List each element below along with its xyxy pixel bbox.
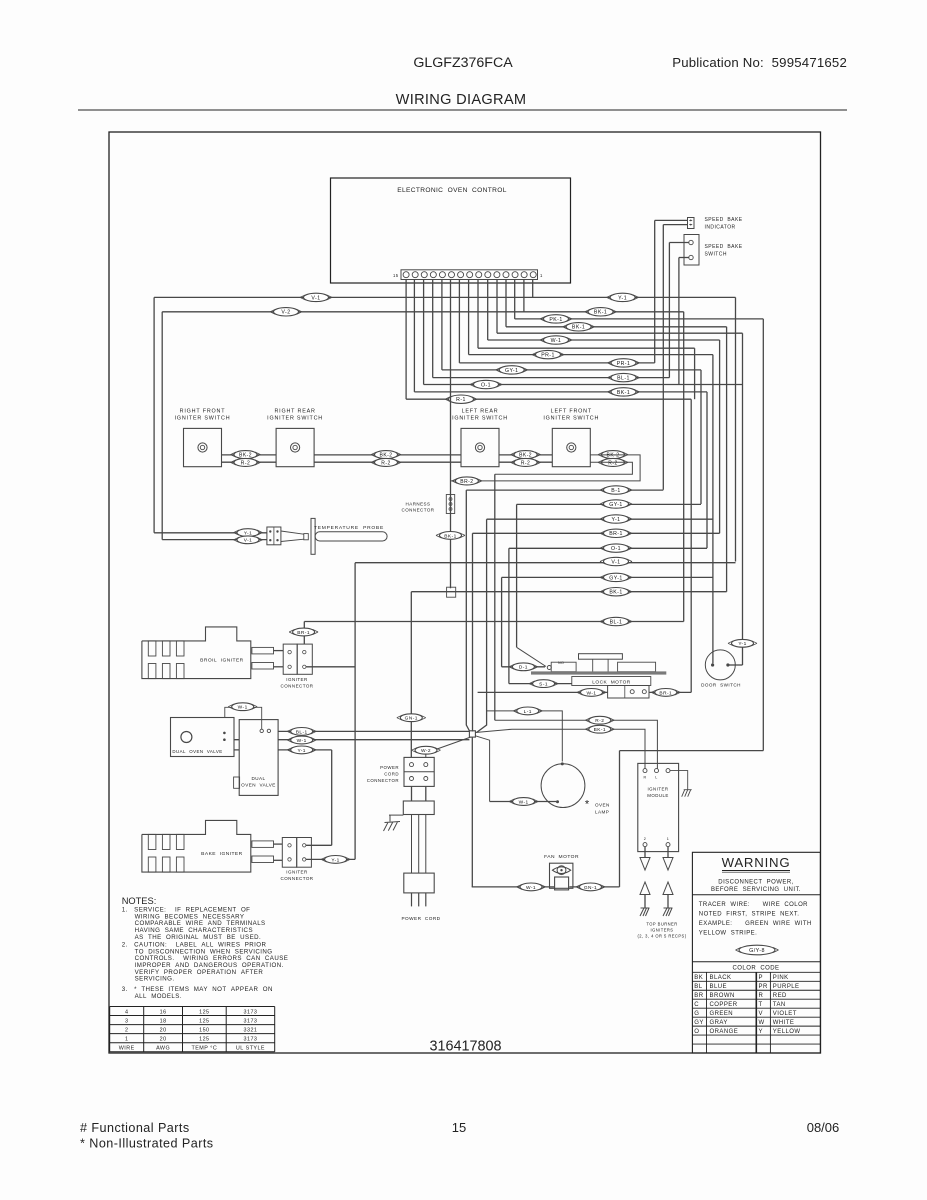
svg-text:3173: 3173	[244, 1036, 258, 1042]
svg-text:SPEED BAKE: SPEED BAKE	[705, 217, 743, 223]
svg-text:BK-2: BK-2	[380, 453, 393, 459]
svg-text:ELECTRONIC OVEN CONTROL: ELECTRONIC OVEN CONTROL	[397, 187, 507, 194]
svg-text:GY-1: GY-1	[609, 502, 622, 508]
svg-text:125: 125	[199, 1009, 209, 1015]
svg-text:BR-2: BR-2	[460, 479, 473, 485]
svg-text:IGNITERS: IGNITERS	[651, 928, 674, 933]
svg-text:* Non-Illustrated Parts: * Non-Illustrated Parts	[80, 1137, 214, 1151]
svg-text:R: R	[759, 993, 764, 999]
svg-text:PR-1: PR-1	[617, 361, 631, 367]
svg-text:15: 15	[452, 1120, 466, 1135]
svg-text:BK-1: BK-1	[594, 310, 607, 316]
svg-text:CORD: CORD	[384, 772, 399, 777]
svg-text:B-1: B-1	[611, 488, 620, 494]
svg-text:DOOR SWITCH: DOOR SWITCH	[701, 683, 741, 688]
svg-text:GN-1: GN-1	[405, 716, 418, 722]
svg-text:BK-2: BK-2	[239, 453, 252, 459]
svg-text:SWITCH: SWITCH	[705, 252, 727, 258]
svg-text:GREEN: GREEN	[710, 1011, 734, 1017]
svg-text:IGNITER SWITCH: IGNITER SWITCH	[543, 416, 599, 422]
svg-text:W: W	[759, 1020, 765, 1026]
svg-text:BR: BR	[694, 993, 703, 999]
svg-text:RED: RED	[773, 993, 787, 999]
svg-text:BR-1: BR-1	[609, 531, 623, 537]
svg-text:BK-1: BK-1	[594, 727, 606, 733]
svg-text:LAMP: LAMP	[595, 810, 609, 815]
svg-text:IGNITER SWITCH: IGNITER SWITCH	[267, 416, 323, 422]
svg-text:D-1: D-1	[519, 665, 528, 671]
svg-text:BROIL IGNITER: BROIL IGNITER	[200, 657, 244, 663]
svg-text:RIGHT REAR: RIGHT REAR	[274, 409, 315, 415]
svg-text:IGNITER: IGNITER	[286, 677, 308, 682]
svg-text:POWER CORD: POWER CORD	[401, 916, 440, 921]
svg-text:PR: PR	[759, 984, 768, 990]
svg-text:BL-1: BL-1	[296, 729, 308, 735]
svg-text:AS THE ORIGINAL MUST BE U: AS THE ORIGINAL MUST BE USED.	[122, 934, 261, 941]
svg-text:IGNITER SWITCH: IGNITER SWITCH	[175, 416, 231, 422]
svg-text:3: 3	[125, 1018, 128, 1024]
svg-text:SERVICING.: SERVICING.	[122, 976, 175, 983]
svg-text:BROWN: BROWN	[710, 993, 735, 999]
svg-text:T: T	[759, 1002, 763, 1008]
svg-text:UL STYLE: UL STYLE	[236, 1046, 265, 1052]
svg-text:316417808: 316417808	[429, 1038, 501, 1054]
svg-text:GRAY: GRAY	[710, 1020, 728, 1026]
svg-text:AWG: AWG	[156, 1046, 170, 1052]
svg-text:GN-1: GN-1	[584, 885, 597, 891]
svg-text:R-2: R-2	[521, 460, 530, 466]
svg-text:ALL MODELS.: ALL MODELS.	[122, 993, 182, 1000]
svg-text:Y-1: Y-1	[298, 748, 306, 754]
svg-text:BLUE: BLUE	[710, 984, 727, 990]
svg-text:BK-1: BK-1	[444, 533, 456, 539]
svg-text:15: 15	[393, 273, 399, 278]
svg-text:# Functional Parts: # Functional Parts	[80, 1121, 190, 1135]
svg-text:V-1: V-1	[244, 538, 253, 544]
svg-text:150: 150	[199, 1027, 209, 1033]
svg-text:18: 18	[160, 1018, 167, 1024]
svg-text:VIOLET: VIOLET	[773, 1011, 797, 1017]
svg-text:IGNITER SWITCH: IGNITER SWITCH	[452, 416, 508, 422]
svg-text:V-1: V-1	[611, 559, 620, 565]
svg-text:L: L	[655, 776, 657, 780]
svg-text:BK-2: BK-2	[607, 453, 620, 459]
svg-text:Y-1: Y-1	[738, 641, 746, 647]
svg-text:GLGFZ376FCA: GLGFZ376FCA	[413, 55, 513, 71]
svg-text:BL-1: BL-1	[617, 376, 630, 382]
svg-text:IGNITER: IGNITER	[648, 787, 669, 792]
svg-text:V-2: V-2	[281, 310, 290, 316]
svg-text:C: C	[694, 1002, 699, 1008]
svg-text:G: G	[694, 1011, 699, 1017]
svg-text:PK-1: PK-1	[549, 317, 562, 323]
svg-text:GY: GY	[694, 1020, 704, 1026]
svg-text:R-2: R-2	[241, 460, 250, 466]
svg-text:DUAL: DUAL	[251, 776, 265, 781]
svg-text:GY-1: GY-1	[505, 368, 518, 374]
svg-text:R-2: R-2	[595, 718, 604, 724]
svg-text:OVEN: OVEN	[595, 803, 610, 808]
svg-text:HARNESS: HARNESS	[406, 502, 431, 507]
svg-text:DUAL OVEN VALVE: DUAL OVEN VALVE	[172, 749, 222, 754]
svg-text:WIRING DIAGRAM: WIRING DIAGRAM	[396, 92, 527, 108]
svg-text:EXAMPLE: GREEN WIRE WIT: EXAMPLE: GREEN WIRE WITH	[699, 921, 812, 927]
svg-text:BK-1: BK-1	[572, 325, 585, 331]
svg-text:20: 20	[160, 1036, 167, 1042]
svg-text:POWER: POWER	[380, 765, 399, 770]
svg-text:CONNECTOR: CONNECTOR	[367, 778, 399, 783]
svg-text:ORANGE: ORANGE	[710, 1029, 739, 1035]
svg-text:W-1: W-1	[297, 738, 307, 744]
svg-text:08/06: 08/06	[807, 1120, 840, 1135]
svg-text:BK: BK	[694, 975, 703, 981]
svg-text:BR-1: BR-1	[659, 690, 672, 696]
svg-text:125: 125	[199, 1018, 209, 1024]
svg-text:P: P	[759, 975, 763, 981]
svg-text:NOTED FIRST, STRIPE NEXT.: NOTED FIRST, STRIPE NEXT.	[699, 912, 800, 918]
svg-text:TAN: TAN	[773, 1002, 786, 1008]
svg-text:CONNECTOR: CONNECTOR	[281, 684, 314, 689]
svg-text:TOP BURNER: TOP BURNER	[646, 922, 677, 927]
svg-text:BK-1: BK-1	[617, 390, 630, 396]
svg-text:W-1: W-1	[519, 799, 529, 805]
svg-text:Y: Y	[759, 1029, 763, 1035]
svg-text:PR-1: PR-1	[541, 353, 555, 359]
svg-text:GY-1: GY-1	[609, 575, 622, 581]
svg-text:PINK: PINK	[773, 975, 789, 981]
svg-text:16: 16	[160, 1009, 167, 1015]
svg-text:4: 4	[125, 1009, 128, 1015]
svg-text:MODULE: MODULE	[647, 793, 669, 798]
svg-text:IGNITER: IGNITER	[286, 870, 308, 875]
svg-text:COPPER: COPPER	[710, 1002, 738, 1008]
svg-text:FAN MOTOR: FAN MOTOR	[544, 854, 579, 860]
svg-text:DISCONNECT POWER,: DISCONNECT POWER,	[718, 880, 793, 886]
svg-text:OVEN VALVE: OVEN VALVE	[241, 783, 276, 788]
svg-text:O: O	[694, 1029, 699, 1035]
svg-text:COLOR CODE: COLOR CODE	[733, 966, 780, 972]
svg-text:BK-2: BK-2	[519, 453, 532, 459]
svg-text:R: R	[643, 776, 646, 780]
svg-text:W-1: W-1	[586, 690, 596, 696]
svg-text:NO: NO	[558, 661, 564, 665]
svg-text:1: 1	[125, 1036, 128, 1042]
svg-text:O-1: O-1	[481, 382, 491, 388]
svg-text:Y-1: Y-1	[618, 295, 627, 301]
svg-text:LEFT REAR: LEFT REAR	[462, 409, 499, 415]
svg-text:SPEED BAKE: SPEED BAKE	[705, 244, 743, 250]
svg-text:BLACK: BLACK	[710, 975, 732, 981]
svg-text:20: 20	[160, 1027, 167, 1033]
svg-text:INDICATOR: INDICATOR	[705, 225, 736, 231]
svg-text:O-1: O-1	[611, 546, 621, 552]
svg-text:3173: 3173	[244, 1009, 258, 1015]
svg-text:Y-1: Y-1	[331, 857, 339, 863]
svg-text:BK-1: BK-1	[609, 590, 622, 596]
svg-text:125: 125	[199, 1036, 209, 1042]
svg-text:BR-1: BR-1	[297, 630, 310, 636]
svg-text:WHITE: WHITE	[773, 1020, 795, 1026]
svg-text:WIRE: WIRE	[119, 1046, 135, 1052]
svg-text:WARNING: WARNING	[722, 855, 791, 870]
svg-text:BL-1: BL-1	[610, 619, 623, 625]
svg-text:YELLOW STRIPE.: YELLOW STRIPE.	[699, 931, 757, 937]
svg-text:S-1: S-1	[539, 682, 548, 688]
svg-text:3173: 3173	[244, 1018, 258, 1024]
svg-text:CONNECTOR: CONNECTOR	[402, 508, 435, 513]
svg-text:2: 2	[644, 837, 647, 841]
svg-text:TEMP °C: TEMP °C	[192, 1046, 218, 1052]
svg-text:LEFT FRONT: LEFT FRONT	[551, 409, 592, 415]
svg-text:Publication No: 5995471652: Publication No: 5995471652	[672, 55, 847, 70]
svg-text:G/Y-8: G/Y-8	[749, 948, 765, 954]
svg-text:V: V	[759, 1011, 763, 1017]
svg-text:Y-1: Y-1	[612, 517, 621, 523]
svg-text:TRACER WIRE: WIRE COLOR: TRACER WIRE: WIRE COLOR	[699, 902, 808, 908]
svg-text:1: 1	[667, 837, 670, 841]
svg-text:W-1: W-1	[551, 338, 562, 344]
svg-text:W-1: W-1	[526, 885, 536, 891]
svg-text:W-2: W-2	[421, 748, 431, 754]
svg-text:V-1: V-1	[311, 295, 320, 301]
svg-text:R-2: R-2	[381, 460, 390, 466]
svg-text:2: 2	[125, 1027, 128, 1033]
svg-text:BL: BL	[694, 984, 702, 990]
svg-text:R-2: R-2	[608, 460, 617, 466]
svg-text:L-1: L-1	[524, 709, 532, 715]
svg-text:*: *	[585, 799, 590, 811]
svg-text:(2, 3, 4 OR 5 RECPS): (2, 3, 4 OR 5 RECPS)	[637, 934, 686, 939]
svg-text:CONNECTOR: CONNECTOR	[281, 876, 314, 881]
svg-text:3321: 3321	[244, 1027, 258, 1033]
svg-text:BAKE IGNITER: BAKE IGNITER	[201, 851, 242, 857]
svg-text:W-1: W-1	[238, 705, 248, 711]
svg-text:YELLOW: YELLOW	[773, 1029, 801, 1035]
svg-text:RIGHT FRONT: RIGHT FRONT	[180, 409, 226, 415]
svg-text:LOCK MOTOR: LOCK MOTOR	[592, 679, 631, 685]
svg-text:TEMPERATURE PROBE: TEMPERATURE PROBE	[314, 525, 384, 531]
svg-text:R-1: R-1	[456, 397, 466, 403]
svg-text:1: 1	[540, 273, 543, 278]
svg-text:BEFORE SERVICING UNIT.: BEFORE SERVICING UNIT.	[711, 887, 801, 893]
svg-text:PURPLE: PURPLE	[773, 984, 800, 990]
svg-text:NOTES:: NOTES:	[122, 896, 157, 906]
